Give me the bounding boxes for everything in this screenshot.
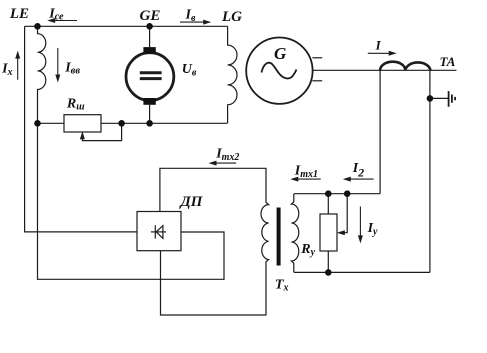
node dot shunt left — [34, 120, 41, 127]
wire Itx2 line (DP top to Tx left winding) — [160, 168, 267, 211]
generator G circle — [246, 37, 312, 103]
svg-text:I: I — [375, 37, 382, 52]
wiper arrowhead Rsh — [80, 131, 85, 139]
sine wave inside G — [262, 63, 297, 79]
svg-text:LG: LG — [221, 9, 242, 25]
stub terminal bottom of G — [312, 80, 322, 82]
node dot Ry bottom — [325, 269, 332, 276]
rectifier box DP — [137, 212, 181, 251]
wire ground branch — [430, 97, 448, 99]
wire vertical drop right of TA down to bottom — [429, 70, 431, 272]
arrow Iv (right) — [180, 21, 208, 23]
arrow Ivv (down) — [57, 48, 59, 79]
machine GE armature circle — [126, 53, 174, 101]
node dot ground junction — [427, 95, 434, 102]
wire Rsh wiper loop — [82, 123, 121, 140]
arrow I main (right) — [368, 52, 393, 54]
arrow Itx1 (left) — [294, 178, 321, 180]
arrow Itx2 (left) — [212, 162, 236, 164]
wire top bus LE-GE-LG — [25, 25, 228, 27]
wire bottom right bus — [294, 271, 430, 273]
wire Ry top bus — [294, 193, 380, 195]
arrow Iy (down) — [359, 207, 361, 240]
inductor LE (field winding) — [38, 26, 46, 123]
resistor Rsh — [64, 115, 101, 132]
wire Ry bottom lead — [327, 251, 329, 272]
wiper arrowhead Ry — [337, 230, 345, 235]
node dot GE top — [146, 23, 153, 30]
resistor Ry — [320, 214, 337, 251]
diode cathode bar — [154, 225, 156, 238]
wire Ry wiper — [340, 194, 348, 233]
wire DP right output loop to shunt junction — [38, 123, 225, 279]
svg-text:GE: GE — [140, 8, 161, 24]
node dot GE bottom — [146, 120, 153, 127]
arrow Ice (left) — [51, 20, 77, 22]
svg-text:G: G — [274, 44, 287, 63]
wire shunt line y=123.3 — [38, 122, 228, 124]
stub terminal top of G — [312, 57, 322, 59]
current transformer TA winding bumps — [380, 62, 430, 71]
node dot Ry wiper top — [344, 190, 351, 197]
transformer Tx core bar — [277, 208, 281, 266]
ground symbol (sideways) — [449, 91, 456, 107]
arrow Ix (up) — [17, 54, 19, 79]
wire main line G to right — [313, 69, 457, 71]
svg-text:ДП: ДП — [179, 194, 204, 210]
brush top GE — [143, 47, 155, 53]
node dot shunt right / wiper — [118, 120, 125, 127]
transformer Tx left winding — [261, 168, 269, 315]
wire DP bottom lead to Tx left winding bottom — [161, 251, 267, 315]
diode inside DP: lead — [151, 231, 166, 233]
wire vertical drop left of TA — [379, 70, 381, 193]
wire Ry top lead — [327, 194, 329, 214]
diode triangle — [156, 226, 163, 239]
inductor LG — [228, 26, 237, 123]
svg-text:TA: TA — [440, 54, 456, 69]
transformer Tx right winding — [291, 194, 298, 273]
wire GE armature branch bottom — [149, 105, 151, 124]
brush bottom GE — [143, 98, 155, 105]
node dot Ry top — [325, 190, 332, 197]
svg-text:LE: LE — [9, 6, 29, 22]
wire left vertical from LE corner down to DP left terminal — [25, 26, 137, 232]
node dot LE top — [34, 23, 41, 30]
wire GE armature branch top — [149, 26, 151, 47]
arrow I2 (left) — [347, 178, 374, 180]
equals sign inside GE — [140, 73, 162, 79]
